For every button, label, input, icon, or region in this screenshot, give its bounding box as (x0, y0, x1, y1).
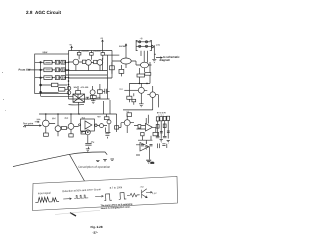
wire T1 drop (78, 102, 80, 114)
node inner dots (52, 62, 66, 79)
wire bus mid-right dark (129, 82, 150, 84)
transistor Q1 (73, 59, 79, 65)
filter block FL1 frame (136, 40, 151, 50)
wire feeds to row2 (104, 100, 111, 114)
waveform square wave (104, 192, 126, 200)
wire c14 drop (87, 135, 89, 143)
ground dashes on bus (96, 159, 114, 162)
resistor R12b (145, 73, 151, 76)
transistor Q7 (55, 126, 61, 132)
wire q6-q8 links (46, 114, 79, 128)
svg-text:+B: +B (69, 44, 72, 47)
ground G5 (160, 140, 163, 143)
resistor R21 (98, 90, 103, 94)
svg-text:4.5V: 4.5V (152, 193, 157, 195)
left switch box SW1 (35, 54, 69, 94)
capacitor C7 (67, 86, 71, 90)
wire FL1 rail B (136, 45, 151, 47)
svg-text:From SW: From SW (19, 68, 31, 72)
transistor Q14 (150, 92, 156, 98)
wire collector drops (79, 51, 103, 60)
capacitor C10 (139, 41, 141, 43)
svg-text:+5V: +5V (140, 187, 145, 189)
node C14 dot (87, 132, 88, 133)
waveform input burst (35, 196, 59, 202)
resistor R16 (69, 134, 73, 137)
capacitor C24 bars (105, 134, 109, 139)
svg-text:-27-: -27- (92, 231, 97, 235)
waveform explanation box (33, 177, 178, 214)
svg-text:2SC: 2SC (52, 118, 56, 120)
svg-text:+B: +B (140, 37, 143, 40)
svg-text:Rec: Rec (119, 89, 123, 91)
ground G6 (145, 147, 148, 150)
capacitor C3 (55, 68, 59, 72)
wire box-right bus up (68, 51, 70, 55)
transistor Q4 (121, 58, 131, 64)
wire rec input (124, 89, 138, 91)
connector J1 comb (156, 116, 169, 121)
capacitor C21 interstage (94, 60, 97, 63)
resistor R1 (77, 52, 81, 55)
svg-text:Fig. 2.28: Fig. 2.28 (91, 225, 103, 229)
wire under-box return (41, 92, 84, 105)
capacitor C26 (86, 97, 89, 99)
node U1 pin right (95, 124, 97, 126)
resistor R22 (127, 96, 132, 99)
transistor Q6 (43, 120, 50, 127)
capacitor C13 (145, 45, 147, 47)
resistor R11 (137, 74, 145, 77)
wire AGC input arrow (24, 125, 41, 127)
resistor R30 (153, 132, 159, 135)
resistor R8 (59, 88, 65, 92)
diode D1 (152, 45, 154, 48)
wire q6 q7 drops (46, 127, 71, 137)
resistor R4 (44, 60, 52, 64)
wire emitters down (76, 65, 100, 71)
wire comb leads (158, 121, 169, 139)
transistor Q5 (141, 62, 149, 68)
resistor R29 (141, 132, 144, 135)
resistor R10 (119, 69, 124, 73)
node bus dots (139, 83, 148, 85)
wire arrow2 (95, 195, 103, 197)
capacitor C20 interstage (82, 60, 85, 63)
capacitor C4 (61, 68, 65, 72)
wire q12 out (146, 191, 152, 193)
ground G8 (91, 99, 95, 104)
resistor R27 (81, 132, 86, 134)
node junction dots (39, 61, 69, 93)
capacitor C6 (61, 76, 65, 80)
wire FL1 drops (141, 51, 148, 63)
ground G4 (86, 149, 90, 152)
wire Q5 pins (136, 65, 152, 72)
ground G2 (139, 104, 144, 107)
capacitor C16 (156, 136, 160, 137)
wire u2 lower (138, 136, 152, 144)
capacitor C12 (139, 45, 141, 47)
wire u2 nets (134, 115, 156, 133)
node FL1 dots (139, 41, 147, 47)
wire comp row links (69, 84, 110, 99)
transistor Q11 (124, 120, 130, 126)
mark faint crease (55, 210, 100, 214)
node U1 pin left (79, 124, 81, 126)
wire arrow1 (63, 198, 71, 200)
wire u1 bottom (81, 131, 83, 132)
svg-text:+B: +B (100, 37, 103, 40)
resistor R18 (127, 193, 140, 197)
wire below-box links (41, 85, 68, 92)
mark stray dash (70, 213, 76, 216)
op-amp U3 (140, 143, 149, 152)
capacitor C22 (90, 90, 95, 95)
node +B tick x102.5 (102, 40, 104, 51)
svg-text:1.5V: 1.5V (156, 45, 161, 47)
resistor R14 (44, 133, 49, 136)
resistor R28 (138, 125, 141, 129)
svg-text:2SC945: 2SC945 (119, 45, 127, 48)
svg-text:1 2 3 4: 1 2 3 4 (158, 115, 164, 117)
transformer T1 (73, 94, 85, 102)
transistor Q10 (107, 120, 111, 124)
wire second top link (105, 54, 119, 56)
capacitor C8 (67, 91, 71, 95)
wire center verticals (103, 51, 113, 100)
wire q9 q10 nets (97, 114, 117, 133)
wire inner junction column (40, 62, 42, 92)
resistor R23 (132, 99, 136, 102)
svg-text:AGC Circuit: AGC Circuit (35, 10, 62, 15)
svg-text:2SA: 2SA (37, 118, 41, 121)
resistor R9 (110, 66, 115, 70)
page noise specks (2, 72, 6, 111)
capacitor C18 (141, 145, 144, 146)
wire inner column right (64, 60, 66, 79)
capacitor C15 electrolytic (85, 143, 91, 148)
transistor Q8 (68, 124, 74, 130)
section heading 2.8 AGC Circuit (26, 10, 62, 15)
svg-text:adj: adj (23, 126, 27, 128)
resistor R24 (62, 127, 67, 130)
capacitor C17 (163, 136, 167, 137)
resistor R5 (44, 68, 52, 72)
wire input stubs (29, 62, 44, 77)
resistor R31 (90, 96, 96, 99)
svg-text:4.7k 100: 4.7k 100 (81, 86, 90, 89)
svg-text:2.8: 2.8 (26, 10, 33, 15)
svg-text:8.7 to 100k: 8.7 to 100k (110, 186, 123, 190)
svg-text:Description of operation: Description of operation (78, 165, 110, 169)
resistor R7 (52, 83, 58, 87)
wire bus2 (123, 109, 153, 111)
op-amp U2 (146, 124, 153, 132)
node +B tick x71.6 (71, 46, 73, 50)
resistor R25 (104, 117, 109, 120)
wire mid rails (62, 71, 107, 76)
resistor R3 (101, 53, 105, 56)
wire long bottom bus (13, 152, 107, 167)
svg-text:2SC945: 2SC945 (93, 50, 101, 53)
wire row links (52, 62, 68, 77)
resistor R6 (44, 76, 52, 80)
wire diagonal leader (70, 155, 86, 183)
capacitor C14 (85, 130, 90, 135)
svg-text:Test point: Test point (23, 122, 34, 125)
transistor Q3 (97, 60, 103, 66)
wire output node (153, 48, 155, 58)
capacitor C2 (61, 60, 65, 64)
wire to-schematic arrow (154, 54, 162, 58)
wire Q4 pins (112, 44, 136, 68)
capacitor C11 (145, 41, 147, 43)
svg-text:2SC: 2SC (65, 118, 69, 120)
ground G7 (167, 140, 170, 143)
node bus dots row2 (45, 113, 80, 115)
transistor Q9 (100, 124, 104, 128)
wire right verticals (139, 62, 150, 83)
resistor R2 (90, 53, 94, 56)
wire u3 nets (136, 142, 149, 160)
wire base links (69, 61, 98, 63)
wire FL1 rail A (136, 41, 151, 43)
transistor Q2 (86, 60, 92, 66)
resistor R20 (76, 91, 81, 95)
capacitor C5 (55, 76, 59, 80)
resistor R33 on lead (163, 124, 166, 128)
resistor R26 (115, 126, 119, 129)
capacitor C1 (55, 60, 59, 64)
resistor R32 on lead (156, 125, 159, 129)
wire q11 nets (119, 115, 134, 134)
transistor Q12 (141, 189, 147, 198)
op-amp U1 box (81, 119, 95, 131)
wire test arrow (35, 121, 39, 123)
wire second-row bus (39, 113, 117, 115)
wire dark rail y78 (69, 77, 113, 79)
ground G1 (152, 58, 156, 63)
wire r22 links (129, 83, 133, 104)
transistor Q13 (138, 87, 144, 93)
resistor R17 (127, 113, 132, 117)
op-amp U1 triangle (85, 121, 92, 129)
wire top supply rail (69, 50, 113, 52)
capacitor C25 bars (158, 144, 167, 149)
wire q13 q14 links (141, 83, 158, 110)
ground G9 (146, 160, 151, 163)
capacitor C23 bars (103, 89, 110, 94)
svg-text:2SC945: 2SC945 (82, 50, 90, 53)
waveform pulse train (74, 195, 88, 199)
capacitor C27 bars mid (160, 131, 170, 133)
capacitor C19 (150, 145, 153, 146)
wire r9 r10 stubs (112, 62, 122, 76)
svg-text:diagram: diagram (160, 58, 171, 62)
